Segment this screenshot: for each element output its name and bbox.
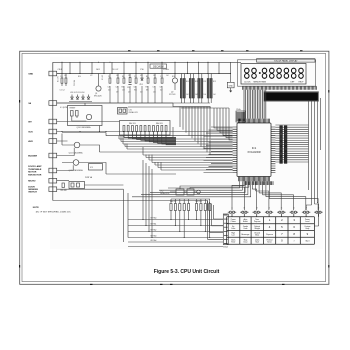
svg-text:C4: C4 bbox=[116, 87, 118, 89]
connector CN-A (left of IC1) bbox=[236, 111, 246, 122]
display colon dot bbox=[259, 72, 261, 74]
svg-text:472: 472 bbox=[90, 75, 93, 77]
svg-text:R13: R13 bbox=[213, 81, 216, 83]
svg-text:104: 104 bbox=[204, 94, 207, 96]
svg-text:R16: R16 bbox=[134, 90, 137, 92]
resistor R3 bbox=[147, 74, 149, 79]
junction dots on rails bbox=[61, 73, 62, 74]
wire bundle: IC1 left fan-out bbox=[204, 127, 233, 173]
transistor Q2 bbox=[172, 78, 177, 83]
svg-text:Beverage: Beverage bbox=[241, 233, 249, 236]
svg-text:LD1 LD2 LD3 LD4: LD1 LD2 LD3 LD4 bbox=[70, 92, 84, 94]
label box OSC/ASM below top rail bbox=[150, 64, 167, 68]
border frame outer bbox=[20, 51, 329, 284]
label box TOUCH PANEL DISPLAY bbox=[257, 59, 316, 62]
svg-text:CX1: CX1 bbox=[129, 110, 132, 112]
svg-text:KEY A2: KEY A2 bbox=[151, 229, 157, 232]
capacitor C3 bbox=[109, 74, 111, 79]
svg-text:DOOR LAMP: DOOR LAMP bbox=[28, 165, 42, 168]
svg-text:R2: R2 bbox=[122, 87, 124, 89]
connector pin CN1-3 (INT) bbox=[49, 119, 57, 124]
wire bus: ribbon band drops to right bus bbox=[309, 101, 318, 205]
svg-text:C21: C21 bbox=[60, 76, 63, 78]
border frame inner bbox=[22, 53, 326, 281]
svg-text:Chime: Chime bbox=[231, 221, 236, 223]
capacitor C4 bbox=[117, 74, 119, 79]
wire: mid long horizontals bbox=[85, 152, 233, 185]
svg-text:CLOCK: CLOCK bbox=[244, 82, 251, 84]
wire bundle: IC1 right to resistor bars bbox=[275, 125, 308, 162]
svg-text:KEY A4: KEY A4 bbox=[151, 239, 157, 242]
svg-text:KEY A0: KEY A0 bbox=[151, 217, 157, 220]
junction dots at array drops bbox=[170, 219, 171, 220]
7-segment digits bbox=[245, 68, 250, 78]
svg-text:RESET: RESET bbox=[70, 108, 77, 110]
IC1 top pin comb bbox=[239, 119, 270, 123]
svg-text:Q10 DTA143ESA: Q10 DTA143ESA bbox=[77, 126, 92, 129]
svg-text:FAN MOTOR: FAN MOTOR bbox=[28, 173, 42, 176]
wires: mid band horizontal runs bbox=[119, 139, 233, 170]
svg-text:13: 13 bbox=[256, 207, 258, 209]
svg-text:RA3 103: RA3 103 bbox=[156, 122, 163, 125]
svg-text:104: 104 bbox=[213, 94, 216, 96]
IC3 regulator box bbox=[89, 164, 103, 171]
resistor array RA6 group bbox=[170, 199, 172, 204]
capacitor C6 bbox=[135, 74, 137, 79]
IC1 XXA102DR body bbox=[237, 123, 271, 177]
wires: mid-left horizontal runs bbox=[57, 103, 233, 189]
svg-text:R24: R24 bbox=[78, 76, 81, 78]
svg-text:R14: R14 bbox=[172, 76, 175, 78]
transistor Q1 bbox=[96, 86, 101, 91]
connector CN-B hatched strip bbox=[223, 214, 228, 245]
svg-text:XXA102DR: XXA102DR bbox=[247, 150, 260, 154]
svg-text:Q11 DTA143ESA: Q11 DTA143ESA bbox=[69, 152, 84, 155]
wires: mid band verticals bbox=[119, 136, 161, 170]
svg-text:11: 11 bbox=[231, 207, 233, 209]
svg-text:KEY A1: KEY A1 bbox=[151, 223, 157, 226]
svg-text:R8: R8 bbox=[122, 76, 124, 78]
wire: osc section bottom rail bbox=[128, 106, 211, 108]
wire: VA rail from CN1-2 bbox=[57, 102, 173, 104]
wire: lowest bottom bus run bbox=[128, 246, 223, 248]
frame tick marks bbox=[20, 51, 329, 285]
svg-text:Meat: Meat bbox=[255, 234, 259, 237]
wires: IC1 bottom-left nested bends bbox=[132, 181, 251, 197]
svg-text:SENSING: SENSING bbox=[28, 189, 38, 191]
display pin header comb bbox=[243, 86, 317, 89]
svg-text:0.1 (LPB): 0.1 (LPB) bbox=[60, 107, 68, 109]
svg-text:Start: Start bbox=[255, 240, 259, 243]
svg-text:C9: C9 bbox=[108, 76, 110, 78]
connector pin CN1-1 (GND) bbox=[49, 71, 57, 76]
svg-text:C6: C6 bbox=[134, 87, 136, 89]
svg-text:16: 16 bbox=[293, 207, 295, 209]
svg-text:Cook: Cook bbox=[243, 228, 247, 230]
svg-text:BUZZER: BUZZER bbox=[28, 155, 37, 157]
reset circuit box bbox=[68, 106, 103, 126]
svg-text:AVR: AVR bbox=[28, 140, 33, 143]
resistor R6 bbox=[76, 111, 79, 117]
svg-text:TURNTABLE: TURNTABLE bbox=[28, 168, 42, 171]
svg-text:Buffet: Buffet bbox=[243, 220, 248, 223]
svg-text:CN-B: CN-B bbox=[223, 247, 229, 249]
svg-text:104: 104 bbox=[140, 92, 143, 94]
svg-text:GND: GND bbox=[28, 73, 33, 75]
connector pin CN1-7 (DOOR LAMP) bbox=[49, 168, 57, 173]
resistor array RA5 column 3 bbox=[198, 74, 200, 79]
svg-text:Popcorn: Popcorn bbox=[266, 233, 273, 236]
transistor Q11 bbox=[74, 142, 80, 148]
svg-text:C13: C13 bbox=[122, 90, 125, 92]
svg-text:103: 103 bbox=[108, 90, 111, 92]
svg-text:R3: R3 bbox=[146, 87, 148, 89]
svg-text:223: 223 bbox=[128, 92, 131, 94]
svg-text:PWR VA: PWR VA bbox=[85, 176, 93, 179]
svg-text:VA: VA bbox=[28, 102, 31, 105]
resistor array RA5 column 4 bbox=[207, 74, 209, 79]
IC1 right pin comb bbox=[271, 127, 275, 173]
wires: riser tops bend from osc area bbox=[181, 107, 229, 109]
IC2 oscillator components row bbox=[176, 189, 184, 195]
svg-text:Conv: Conv bbox=[231, 228, 235, 230]
svg-text:KEY A3: KEY A3 bbox=[151, 235, 157, 238]
svg-text:C7: C7 bbox=[153, 87, 155, 89]
capacitor C8 bbox=[161, 74, 163, 79]
svg-text:R9: R9 bbox=[146, 76, 148, 78]
svg-text:14: 14 bbox=[268, 207, 270, 209]
wires: RA2 pin drops bend right bbox=[124, 132, 176, 145]
svg-text:0.1 LPB: 0.1 LPB bbox=[58, 76, 60, 82]
capacitor C1 group (top left) bbox=[61, 74, 63, 79]
svg-text:681: 681 bbox=[146, 90, 149, 92]
svg-text:102: 102 bbox=[153, 75, 156, 77]
svg-text:103: 103 bbox=[64, 75, 67, 77]
svg-text:Timer: Timer bbox=[231, 240, 236, 243]
wires: right bus bend to key switches bbox=[306, 202, 318, 226]
svg-text:C1 C2: C1 C2 bbox=[60, 90, 65, 92]
left connector bus wire bbox=[52, 62, 54, 200]
connector pin CN1-8 (MICRO) bbox=[49, 178, 57, 183]
key switch symbols row bbox=[228, 211, 236, 217]
IC1 bottom pin comb bbox=[239, 177, 270, 182]
transistor Q10 bbox=[86, 114, 91, 119]
IC1 left pin comb bbox=[233, 127, 237, 173]
capacitor C5 electrolytic bbox=[129, 74, 131, 78]
svg-text:C11: C11 bbox=[134, 76, 137, 78]
svg-text:Clear: Clear bbox=[243, 240, 248, 243]
svg-text:C12: C12 bbox=[160, 76, 163, 78]
svg-text:Figure 5-3. CPU Unit Circuit: Figure 5-3. CPU Unit Circuit bbox=[154, 269, 220, 275]
wire: right edge vertical bbox=[320, 98, 322, 150]
junction dots top rail bbox=[62, 62, 63, 63]
wire: arrays top bus bbox=[171, 198, 210, 200]
svg-text:12: 12 bbox=[243, 207, 245, 209]
resistor R2 bbox=[123, 74, 125, 79]
wire bundle: IC1 bottom to key matrix bbox=[232, 181, 318, 210]
wire: reset box internals bbox=[72, 116, 87, 121]
svg-text:Popcorn: Popcorn bbox=[254, 220, 261, 223]
zener diode ZD1 bbox=[141, 74, 143, 79]
svg-text:R11: R11 bbox=[195, 81, 198, 83]
diodes LD1-LD4 bbox=[71, 95, 73, 98]
svg-text:104: 104 bbox=[186, 94, 189, 96]
wire: IC2 row to IC1 bottom bbox=[180, 186, 244, 189]
resistor R5 bbox=[71, 111, 74, 117]
wire: diode row bbox=[69, 101, 92, 103]
resistor array RA5 column 2 bbox=[189, 74, 191, 79]
wires: osc component leads to VA rail bbox=[110, 86, 162, 103]
svg-text:Level: Level bbox=[305, 221, 310, 223]
svg-text:C3: C3 bbox=[108, 87, 110, 89]
svg-text:IC1: IC1 bbox=[252, 146, 257, 150]
key matrix table bbox=[227, 217, 315, 244]
svg-text:DOOR: DOOR bbox=[28, 186, 35, 188]
display module DS1 outline bbox=[241, 64, 306, 85]
svg-text:C8: C8 bbox=[160, 87, 162, 89]
svg-text:104: 104 bbox=[195, 94, 198, 96]
svg-text:Weight: Weight bbox=[254, 227, 260, 230]
resistor array RA8 vertical bar bbox=[280, 126, 283, 164]
svg-text:C14: C14 bbox=[153, 92, 156, 94]
svg-text:DTC143: DTC143 bbox=[169, 94, 175, 96]
transistor Q12 bbox=[73, 160, 79, 166]
sub-circuit box (buzzer driver) bbox=[69, 182, 85, 189]
resistor array box RA2 bbox=[120, 121, 171, 136]
svg-text:Help: Help bbox=[306, 228, 310, 230]
svg-text:Serve: Serve bbox=[267, 240, 272, 243]
svg-text:PULL UP: PULL UP bbox=[112, 69, 118, 71]
svg-text:MICRO: MICRO bbox=[28, 181, 36, 183]
ground symbol GND (top right) bbox=[227, 82, 234, 88]
connector pin CN1-4 (SCK) bbox=[49, 129, 57, 134]
resistor array RA5 column 1 bbox=[180, 74, 182, 79]
svg-text:R10: R10 bbox=[186, 81, 189, 83]
svg-text:222: 222 bbox=[128, 75, 131, 77]
svg-text:IC3: IC3 bbox=[90, 167, 93, 169]
svg-text:MEMORY/MIN: MEMORY/MIN bbox=[254, 82, 267, 84]
display unit outer box bbox=[238, 60, 316, 86]
wire: GND rail from CN1-1 bbox=[57, 73, 231, 75]
svg-text:104: 104 bbox=[166, 75, 169, 77]
svg-text:KRC102S: KRC102S bbox=[94, 96, 102, 98]
svg-text:104: 104 bbox=[116, 75, 119, 77]
svg-text:Start: Start bbox=[305, 240, 309, 243]
ribbon connector hatched band bbox=[264, 92, 319, 101]
svg-text:(R) : IF NOT SPECIFIED, 1/16W: (R) : IF NOT SPECIFIED, 1/16W ±5% bbox=[36, 211, 71, 213]
svg-text:4.19MHz: 4.19MHz bbox=[163, 69, 169, 71]
junction dots bottom bus bbox=[143, 219, 144, 220]
connector pin CN1-5 (AVR) bbox=[49, 139, 57, 144]
svg-text:102: 102 bbox=[160, 90, 163, 92]
wires: long verticals to bottom bus bbox=[123, 160, 152, 242]
resistor R20 bbox=[62, 183, 64, 188]
svg-text:R7 472: R7 472 bbox=[102, 75, 104, 80]
wire: left bus bottom run to key matrix bbox=[53, 201, 208, 211]
wire bundle: vertical riser left of IC1 bbox=[180, 107, 210, 156]
scan tint overlay bbox=[50, 57, 323, 249]
wire: top supply rail bbox=[53, 61, 241, 63]
resistor array RA7 group bbox=[196, 199, 198, 204]
connector pin CN1-9 (DOOR) bbox=[49, 187, 57, 192]
svg-text:NOTE: NOTE bbox=[33, 207, 40, 209]
svg-text:R12: R12 bbox=[204, 81, 207, 83]
svg-text:RA2 103: RA2 103 bbox=[129, 122, 136, 125]
IC1 bottom hatch strip bbox=[244, 181, 273, 185]
svg-text:15: 15 bbox=[281, 207, 283, 209]
svg-text:SWITCH: SWITCH bbox=[28, 192, 37, 194]
wire: osc outputs to riser bbox=[173, 102, 210, 104]
resistor array RA9 vertical bar bbox=[284, 126, 287, 164]
svg-text:C22 104: C22 104 bbox=[74, 80, 76, 86]
svg-text:472: 472 bbox=[116, 92, 119, 94]
wire bus: display to IC1 top bbox=[244, 90, 266, 119]
wires: top section vertical drops bbox=[62, 62, 231, 73]
bottom wire bus to CN-B bbox=[128, 219, 223, 221]
junction dots mid band bbox=[62, 131, 63, 132]
svg-text:HELP: HELP bbox=[299, 82, 305, 84]
svg-text:GND: GND bbox=[229, 85, 234, 87]
svg-text:R20 10K: R20 10K bbox=[61, 190, 68, 192]
capacitor C7 bbox=[154, 74, 156, 79]
wires: key matrix row feeds from left bbox=[208, 201, 224, 240]
ceralock X1 box bbox=[118, 108, 128, 115]
svg-text:473: 473 bbox=[140, 75, 143, 77]
wire: RA2 outputs bus bbox=[124, 137, 166, 139]
connector pin CN1-6 (BUZZER) bbox=[49, 153, 57, 158]
wire bundle: vertical riser into IC1 left upper pins bbox=[214, 108, 233, 140]
svg-text:SCK: SCK bbox=[28, 131, 33, 133]
connector pin CN1-2 (VA) bbox=[49, 101, 57, 106]
svg-text:ZD1: ZD1 bbox=[140, 84, 143, 86]
